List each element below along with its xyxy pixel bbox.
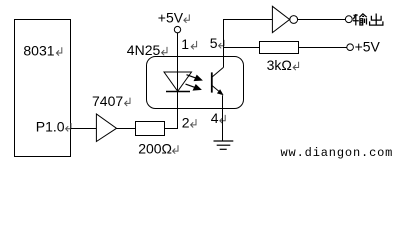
label 8031 <box>23 43 61 59</box>
svg-text:200Ω: 200Ω <box>138 141 172 157</box>
svg-text:3kΩ: 3kΩ <box>267 57 292 73</box>
wire P1.0 to buffer <box>71 128 97 130</box>
wire buffer to resistor <box>117 128 136 130</box>
wire inverter to output terminal <box>298 19 346 21</box>
svg-text:7407: 7407 <box>92 93 123 109</box>
svg-text:P1.0: P1.0 <box>36 118 65 134</box>
svg-text:+5V: +5V <box>355 38 381 54</box>
svg-text:4: 4 <box>211 110 219 126</box>
output terminal 输出 <box>345 16 352 23</box>
phototransistor Q1 <box>212 67 224 95</box>
wire resistor to pin 2 <box>165 92 178 129</box>
pin label P1.0 <box>36 118 71 134</box>
ground <box>214 141 234 149</box>
wire 3kΩ to +5V terminal <box>299 47 347 49</box>
buffer 7407 <box>96 114 116 142</box>
svg-text:+5V: +5V <box>158 10 184 26</box>
inverter U2 <box>272 6 297 32</box>
pin label 1 <box>181 36 196 52</box>
pin label 4 <box>211 110 225 126</box>
light arrows <box>186 75 202 90</box>
resistor R2 3kΩ <box>260 42 299 54</box>
svg-text:4N25: 4N25 <box>127 42 161 58</box>
svg-text:5: 5 <box>210 35 218 51</box>
wire +5V to pin 1 / LED anode <box>177 33 179 92</box>
LED D1 inside 4N25 <box>164 72 192 92</box>
IC box 8031 <box>15 20 71 157</box>
label 4N25 <box>127 42 167 58</box>
pin label 5 <box>210 35 224 51</box>
svg-text:ww.diangon.com: ww.diangon.com <box>281 146 394 160</box>
pin label 2 <box>182 114 196 130</box>
svg-text:8031: 8031 <box>23 43 54 59</box>
label 3kΩ <box>267 57 299 73</box>
resistor R1 200Ω <box>136 122 165 136</box>
optocoupler U1 4N25 body <box>147 57 244 109</box>
power +5V terminal (top) <box>158 10 189 33</box>
wire pin 5 to inverter input <box>224 20 273 68</box>
wire pin 5 to pull-up resistor <box>223 47 260 49</box>
label 输出 (drawn paths, CJK not in Liberation) <box>353 14 383 26</box>
svg-text:2: 2 <box>182 114 190 130</box>
label 200Ω <box>138 141 178 157</box>
label 7407 <box>92 93 130 109</box>
power +5V terminal (right) <box>347 38 381 54</box>
svg-text:1: 1 <box>181 36 189 52</box>
wire pin 4 to ground <box>222 95 224 141</box>
